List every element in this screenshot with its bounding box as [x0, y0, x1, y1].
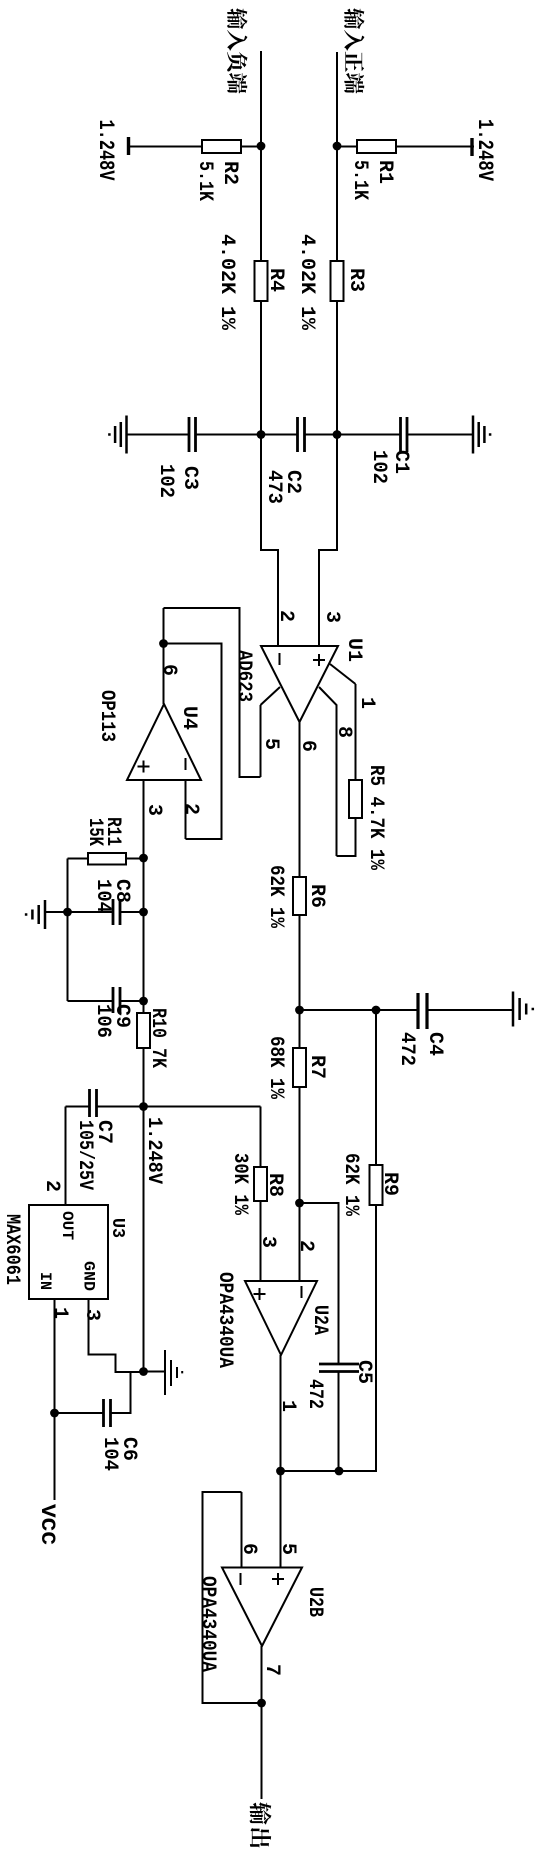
svg-text:104: 104	[98, 1437, 121, 1471]
wire C4 to ground	[427, 1009, 513, 1011]
wire C2 bottom	[261, 434, 298, 436]
svg-text:472: 472	[303, 1379, 326, 1409]
wire node A to R7	[299, 1010, 301, 1048]
wire C5 jog	[300, 1203, 339, 1364]
svg-text:8: 8	[332, 726, 355, 738]
wire U3 GND staircase	[89, 1299, 144, 1372]
wire R8 to U2A pin3	[260, 1201, 262, 1281]
junction U4 output/feedback	[159, 639, 168, 648]
wire R8 left	[260, 1107, 262, 1168]
junction IN- / C2C3	[257, 430, 266, 439]
wire node A to C4	[300, 1009, 419, 1011]
svg-text:U4: U4	[177, 706, 200, 730]
capacitor C2	[298, 417, 305, 452]
wire ground stem	[46, 911, 68, 913]
svg-text:AD623: AD623	[232, 650, 255, 702]
svg-text:4.02K 1%: 4.02K 1%	[215, 234, 238, 331]
svg-text:3: 3	[142, 804, 165, 816]
U2B plus sign	[272, 1573, 284, 1585]
wire R9 right	[281, 1205, 377, 1471]
wire R2 top	[241, 146, 261, 148]
wire R11 top	[126, 858, 144, 860]
wire U4 pin2 stub	[185, 780, 187, 839]
junction node A (R6/R7/C4)	[295, 1006, 304, 1015]
wire U2B pin6	[241, 1492, 243, 1567]
junction C7/R8 column	[139, 1102, 148, 1111]
svg-text:2: 2	[179, 803, 202, 815]
svg-text:U1: U1	[342, 638, 365, 662]
svg-text:C1: C1	[389, 450, 412, 474]
svg-text:R2: R2	[218, 161, 241, 185]
svg-text:OP113: OP113	[95, 690, 118, 742]
junction C5 / output column	[335, 1467, 344, 1476]
svg-text:102: 102	[367, 450, 390, 484]
svg-text:102: 102	[154, 464, 177, 498]
wire C5 right	[338, 1372, 340, 1472]
wire U2B feedback	[203, 1492, 262, 1703]
svg-text:5: 5	[259, 738, 282, 750]
op-amp U2A body	[245, 1281, 317, 1355]
svg-text:U3: U3	[107, 1218, 127, 1238]
svg-text:1: 1	[276, 1400, 299, 1412]
wire C6 bottom	[55, 1412, 104, 1414]
resistor R2	[202, 140, 241, 153]
wire U1 pin5 horizontal	[260, 705, 262, 777]
svg-text:7: 7	[260, 1664, 283, 1676]
capacitor C4	[418, 993, 427, 1029]
svg-text:6: 6	[296, 740, 319, 752]
U4 plus sign	[138, 761, 150, 773]
resistor R6	[293, 877, 306, 915]
svg-text:6: 6	[237, 1543, 260, 1555]
regulator U3 MAX6061 box	[29, 1205, 108, 1299]
ground G3 (bottom of cap column)	[109, 416, 126, 454]
wire U3 IN pin	[54, 1299, 56, 1500]
U1 plus sign	[313, 654, 325, 666]
svg-text:MAX6061: MAX6061	[0, 1214, 23, 1285]
svg-text:473: 473	[262, 470, 285, 504]
wire R1 to 1.248V terminal	[396, 146, 474, 148]
capacitor C6	[104, 1399, 111, 1427]
junction C6 tap	[50, 1409, 59, 1418]
junction ground tap	[63, 908, 72, 917]
wire U1 pin8	[319, 687, 337, 856]
svg-text:OPA4340UA: OPA4340UA	[196, 1576, 219, 1672]
wire IN+ rail	[319, 52, 337, 646]
op-amp U2B body	[222, 1568, 302, 1647]
junction IN+ / R1	[333, 142, 342, 151]
U2A minus sign	[301, 1286, 303, 1298]
resistor R10	[137, 1013, 150, 1048]
resistor R7	[293, 1048, 306, 1087]
svg-text:GND: GND	[80, 1261, 98, 1291]
svg-text:R7: R7	[305, 1055, 328, 1079]
capacitor C7	[90, 1089, 97, 1117]
U4 minus sign	[185, 758, 187, 770]
svg-text:472: 472	[395, 1032, 418, 1066]
wire IN- rail	[261, 51, 278, 646]
wire C7 top	[97, 1106, 144, 1108]
terminal bar 1.248V (R1)	[470, 138, 473, 156]
ground G5 (1.248V rail end)	[165, 1350, 182, 1395]
wire C8 top	[120, 911, 144, 913]
wire C6 top jog	[111, 1373, 131, 1413]
svg-text:R6: R6	[305, 884, 328, 908]
svg-text:1: 1	[355, 697, 378, 709]
capacitor C1	[401, 417, 408, 452]
svg-text:62K 1%: 62K 1%	[339, 1153, 362, 1217]
wire U3 OUT pin	[65, 1107, 67, 1206]
svg-text:R5 4.7K 1%: R5 4.7K 1%	[364, 765, 387, 871]
junction C9 tap	[139, 997, 148, 1006]
capacitor C5	[319, 1364, 359, 1372]
wire U1 pin6 output	[299, 722, 301, 877]
svg-text:3: 3	[256, 1236, 279, 1248]
svg-text:VCC: VCC	[35, 1504, 58, 1545]
U2A plus sign	[254, 1288, 266, 1300]
wire R9 left	[375, 1010, 377, 1165]
svg-text:2: 2	[294, 1240, 317, 1252]
svg-text:105/25V: 105/25V	[73, 1120, 96, 1190]
capacitor C3	[189, 417, 196, 452]
svg-text:3: 3	[80, 1309, 103, 1321]
svg-text:1.248V: 1.248V	[93, 120, 118, 182]
wire C3 to ground	[127, 434, 190, 436]
svg-text:62K 1%: 62K 1%	[264, 865, 287, 929]
wire C1 to ground	[407, 434, 473, 436]
node OUT label 输出	[250, 1802, 272, 1847]
wire lower rail	[67, 859, 69, 1002]
junction U2A output / U2B pin5	[276, 1467, 285, 1476]
svg-text:3: 3	[320, 611, 343, 623]
svg-text:1.248V: 1.248V	[472, 119, 497, 182]
ground G4 (reference filter)	[26, 900, 45, 929]
junction IN+ / C1C2	[333, 430, 342, 439]
ground G2 (C4)	[513, 992, 533, 1027]
wire R1 top	[337, 146, 396, 148]
svg-text:2: 2	[40, 1180, 63, 1192]
svg-text:6: 6	[157, 664, 180, 676]
capacitor C8	[113, 899, 120, 925]
wire C7 bottom	[66, 1106, 90, 1108]
wire G5 stem	[144, 1371, 166, 1373]
svg-text:R3: R3	[344, 268, 367, 292]
resistor R1	[357, 140, 396, 153]
wire U4 output	[163, 608, 165, 704]
capacitor C9	[113, 987, 120, 1013]
wire C3 top	[196, 434, 262, 436]
wire pin5 corner	[164, 608, 261, 777]
wire C1 to IN+ rail	[337, 434, 401, 436]
svg-text:15K: 15K	[83, 818, 106, 846]
junction U2B output/feedback	[257, 1699, 266, 1708]
svg-text:104: 104	[91, 879, 114, 913]
svg-text:IN: IN	[36, 1272, 54, 1290]
svg-text:4.02K 1%: 4.02K 1%	[295, 234, 318, 331]
svg-text:C3: C3	[178, 466, 201, 490]
svg-text:OPA4340UA: OPA4340UA	[213, 1272, 236, 1368]
wire C2 top	[305, 434, 338, 436]
wire U1 pin1 diagonal	[330, 664, 356, 684]
svg-text:C5: C5	[352, 1360, 375, 1384]
op-amp U1 AD623 body	[261, 646, 338, 722]
resistor R11	[88, 853, 126, 865]
resistor R5	[349, 780, 362, 818]
wire R7 to U2A pin2	[299, 1087, 301, 1281]
U1 minus sign	[279, 653, 281, 665]
wire C9 bottom	[68, 1000, 114, 1002]
U2B minus sign	[240, 1573, 242, 1585]
terminal bar 1.248V (R2)	[127, 137, 130, 155]
ground G1 (top of cap column)	[473, 416, 490, 454]
resistor R4	[255, 261, 268, 301]
svg-text:C4: C4	[423, 1032, 446, 1056]
node IN+ label 输入正端	[344, 8, 364, 93]
junction R9 tap	[372, 1006, 381, 1015]
svg-text:R10 7K: R10 7K	[146, 1008, 169, 1068]
svg-text:2: 2	[274, 610, 297, 622]
svg-text:R1: R1	[373, 160, 396, 184]
svg-text:30K 1%: 30K 1%	[228, 1153, 251, 1216]
resistor R3	[331, 261, 344, 301]
junction C8 tap	[139, 908, 148, 917]
wire U4 pin3 stub	[143, 780, 145, 857]
wire C8 bottom	[68, 911, 114, 913]
junction R11 tap	[139, 854, 148, 863]
svg-text:5: 5	[276, 1543, 299, 1555]
wire U1 pin1 to R5	[355, 684, 357, 780]
wire U2B output	[261, 1646, 263, 1799]
resistor R9	[370, 1165, 383, 1205]
wire R5 to corner	[337, 818, 356, 856]
wire U1 pin5 diagonal	[261, 687, 281, 705]
svg-text:68K 1%: 68K 1%	[264, 1036, 287, 1100]
wire U2B pin5	[280, 1471, 282, 1567]
svg-text:106: 106	[91, 1004, 114, 1038]
svg-text:5.1K: 5.1K	[193, 161, 216, 201]
svg-text:R4: R4	[264, 268, 287, 292]
svg-text:U2A: U2A	[308, 1305, 331, 1335]
wire R6 to node A	[299, 915, 301, 1010]
svg-text:U2B: U2B	[303, 1587, 326, 1617]
wire U2A output	[280, 1355, 282, 1471]
svg-text:1: 1	[48, 1307, 71, 1319]
wire 1.248V rail	[143, 857, 145, 1372]
resistor R8	[254, 1167, 267, 1201]
wire column top	[144, 1106, 261, 1108]
svg-text:OUT: OUT	[58, 1211, 76, 1240]
junction U2A pin2 / C5	[295, 1199, 304, 1208]
op-amp U4 OP113 body	[127, 704, 201, 780]
junction IN- / R2	[257, 142, 266, 151]
wire R11 bottom	[68, 858, 89, 860]
node IN- label 输入负端	[227, 8, 247, 93]
wire R2 to 1.248V terminal	[128, 146, 202, 148]
wire C9 top	[120, 1000, 144, 1002]
svg-text:R9: R9	[378, 1172, 401, 1196]
junction rail end	[139, 1367, 148, 1376]
svg-text:R8: R8	[263, 1173, 286, 1197]
svg-text:5.1K: 5.1K	[348, 160, 371, 200]
svg-text:1.248V: 1.248V	[142, 1117, 165, 1184]
wire U4 feedback up	[164, 644, 222, 840]
